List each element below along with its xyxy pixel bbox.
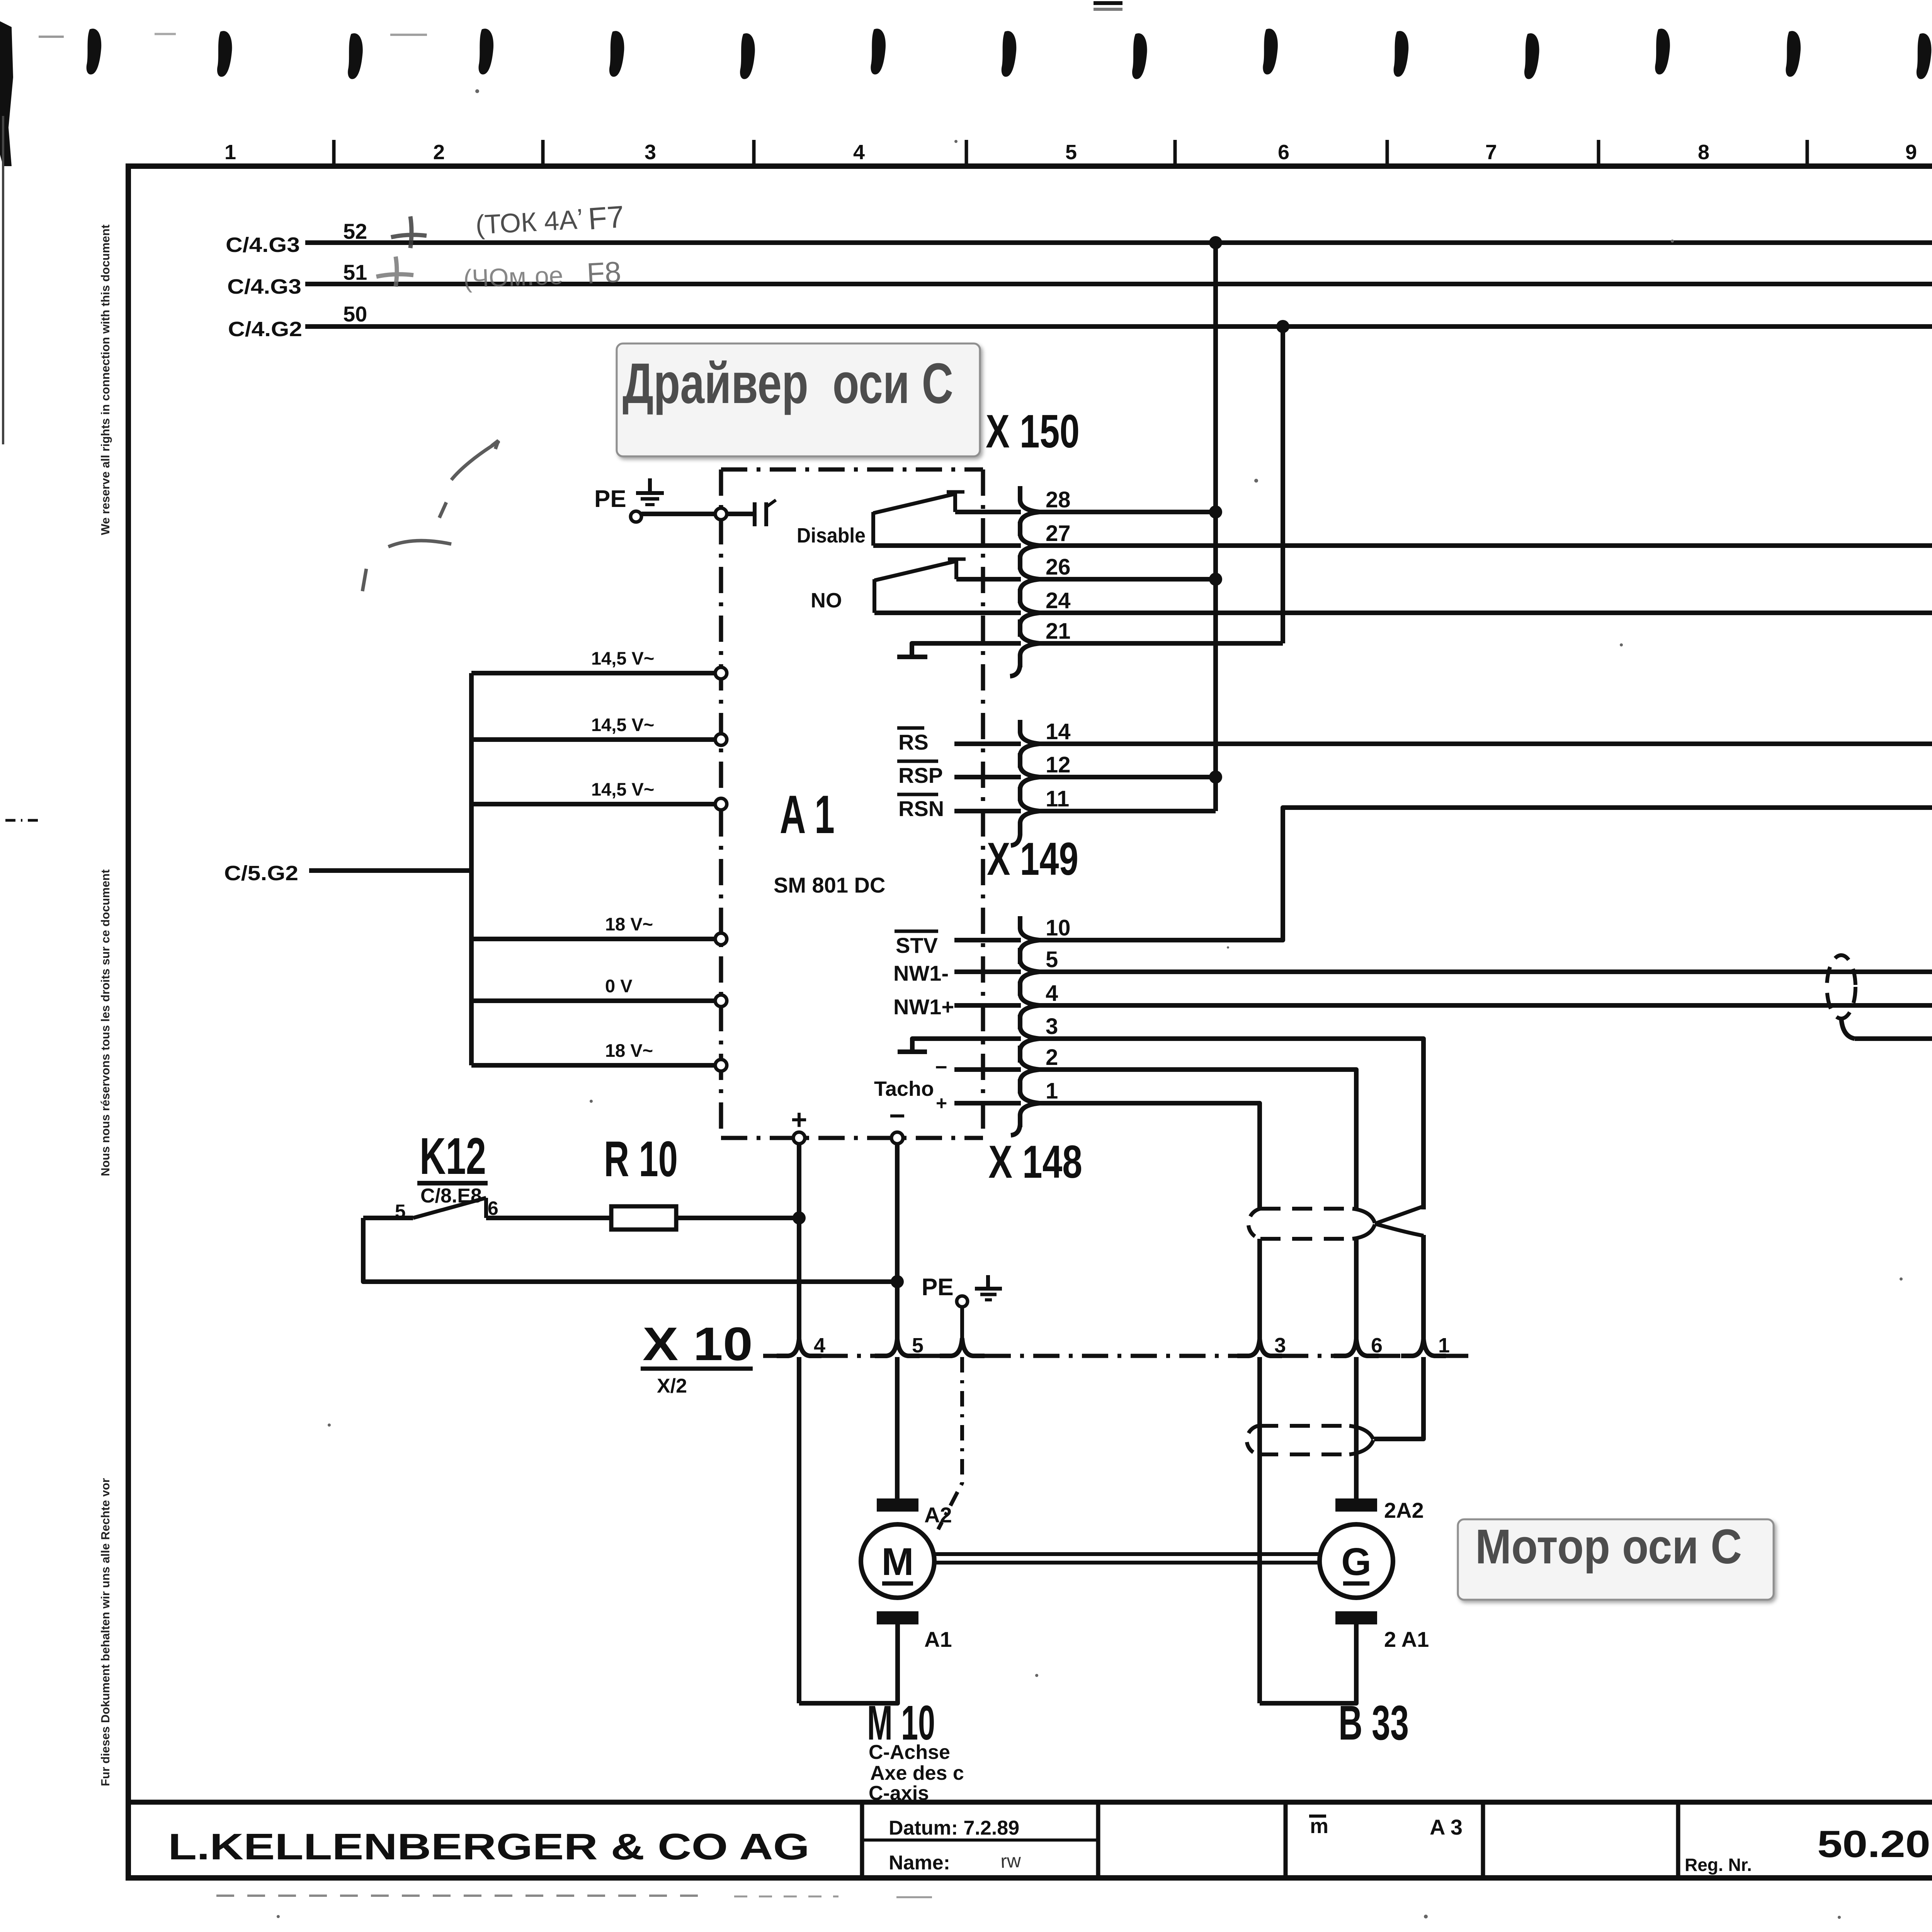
wire RSP to net52 vertical: [1039, 775, 1216, 779]
wire supply 14,5V~: [471, 802, 716, 806]
motor M10 body circle: [861, 1524, 934, 1598]
connector X10 pin 3 hook: [1237, 1339, 1282, 1356]
svg-text:We reserve all rights in conne: We reserve all rights in connection with…: [99, 224, 112, 535]
overlay label box: Драйвер оси С: [617, 344, 980, 456]
svg-text:F7: F7: [587, 199, 625, 236]
wire X150 pin26 to net52 vertical: [1039, 577, 1216, 582]
connector X150 pin 28 number: [1046, 487, 1071, 512]
connector X10 name: [641, 1318, 753, 1370]
svg-text:PE: PE: [594, 486, 626, 512]
pencil annotation row 52: + (TOK 4A) F7: [391, 199, 625, 248]
connector X149 pin 11 number: [1046, 786, 1069, 811]
wire X10 pin1 to lower capsule: [1374, 1357, 1423, 1439]
label Axe des c: [870, 1762, 964, 1784]
svg-text:14,5 V~: 14,5 V~: [591, 714, 654, 735]
svg-text:2: 2: [433, 141, 445, 164]
wire net 51: [305, 282, 1932, 286]
label Disable: [797, 524, 866, 547]
net label C/5.G2: [224, 862, 298, 885]
svg-text:Reg. Nr.: Reg. Nr.: [1685, 1855, 1752, 1875]
title block divider 5: [1676, 1802, 1680, 1878]
wire B33 2A1 to X10 pin3 elbow: [1260, 1624, 1356, 1703]
svg-text:X 150: X 150: [986, 405, 1080, 457]
svg-text:rw: rw: [1000, 1850, 1022, 1872]
dash-dot PE bond to motor frame: [938, 1357, 962, 1529]
svg-text:X/2: X/2: [657, 1375, 687, 1397]
connector X10 pin PE hook: [940, 1339, 985, 1356]
label 0V: [605, 976, 633, 996]
svg-text:NW1+: NW1+: [893, 995, 954, 1019]
connector X10 pin 4 hook: [777, 1339, 821, 1356]
shield capsule upper (dashed): [1248, 1209, 1375, 1239]
svg-text:C/8.E8: C/8.E8: [420, 1185, 482, 1207]
contact NO: pin24 stub wire: [874, 611, 1021, 615]
node junction net52/RSP: [1209, 770, 1222, 784]
module A1 designator: [780, 784, 835, 845]
svg-text:50: 50: [343, 302, 367, 326]
label 14,5V~: [591, 714, 654, 735]
svg-text:A 1: A 1: [780, 784, 835, 845]
stub wire STV: [954, 938, 1021, 942]
connector X150 pin 26 number: [1046, 554, 1071, 580]
svg-text:5: 5: [912, 1334, 923, 1357]
wire RSN to net52 vertical: [1039, 809, 1216, 813]
module A1 type SM 801 DC: [774, 873, 885, 897]
svg-text:2: 2: [1046, 1045, 1058, 1070]
node junction R10/+ wire: [793, 1211, 806, 1225]
contact Disable: pin27 stub wire: [873, 543, 1021, 548]
title block datum/name divider: [862, 1838, 1098, 1842]
svg-text:SM 801 DC: SM 801 DC: [774, 873, 885, 897]
contact K12 blade: [413, 1198, 486, 1218]
node: A1 boundary PE connection: [715, 508, 727, 520]
svg-text:14,5 V~: 14,5 V~: [591, 648, 654, 668]
svg-text:F8: F8: [586, 255, 622, 290]
connector X149 body tail: [1011, 835, 1020, 845]
overlay label box: Мотор оси С: [1458, 1519, 1774, 1600]
node junction on net 50: [1276, 320, 1289, 333]
svg-text:2 A1: 2 A1: [1384, 1627, 1429, 1651]
resistor R10 body: [611, 1206, 676, 1230]
svg-text:9: 9: [1905, 141, 1917, 164]
contact Disable: pin28 stub wire: [955, 510, 1021, 514]
svg-text:X 148: X 148: [988, 1136, 1082, 1188]
svg-text:X 149: X 149: [987, 833, 1078, 885]
shield oval drain hook: [1841, 1018, 1855, 1039]
generator B33 top terminal pad: [1335, 1498, 1377, 1512]
feed-through capacitor symbol: [755, 500, 776, 526]
wire net 50: [305, 324, 1932, 329]
stub wire RS: [954, 742, 1021, 746]
contact K12 terminal 6 tick: [484, 1198, 488, 1218]
motor M10 bottom terminal pad: [877, 1611, 918, 1624]
connector X150 pin 21 hook: [1020, 619, 1039, 667]
contact K12 terminal 6 label: [488, 1197, 498, 1219]
wire vertical from net 50: [1281, 327, 1285, 643]
connector X150 pin 24 number: [1046, 588, 1071, 613]
title: Reg. Nr. label: [1685, 1855, 1752, 1875]
terminal circle on A1 boundary (14,5V~): [715, 667, 727, 679]
svg-text:5: 5: [1046, 947, 1058, 972]
svg-text:Name:: Name:: [889, 1852, 950, 1874]
wire X10 pin4 down: [797, 1357, 801, 1703]
node junction lower return/− vertical: [891, 1275, 904, 1288]
title block top line: [128, 1800, 1932, 1805]
net label C/4.G2 (row 50): [228, 318, 302, 341]
title: Reg number 50.209.10: [1817, 1823, 1932, 1865]
wire tacho- through capsule to X10 pin6: [1354, 1239, 1359, 1339]
stub wire tacho −: [954, 1067, 1021, 1072]
svg-text:M: M: [881, 1540, 913, 1583]
wire X150 pin28 to net52 vertical: [1039, 510, 1216, 514]
wire X148 pin3 shield run: [1039, 1039, 1423, 1209]
net label C/4.G3 (row 51): [227, 275, 301, 298]
connector X10 pin 6 number: [1371, 1334, 1383, 1357]
label RSP (overline): [897, 761, 943, 787]
svg-text:50.209.10: 50.209.10: [1817, 1823, 1932, 1865]
label 2 A1: [1384, 1627, 1429, 1651]
svg-text:B 33: B 33: [1338, 1696, 1409, 1750]
svg-text:RSN: RSN: [898, 796, 944, 821]
svg-text:6: 6: [1371, 1334, 1383, 1357]
svg-text:3: 3: [645, 141, 656, 164]
title block divider 3: [1284, 1802, 1288, 1878]
connector X10 pin 5 number: [912, 1334, 923, 1357]
contact NO: fixed terminal: [948, 559, 966, 579]
pencil annotation: arrow scribble: [362, 440, 499, 591]
svg-text:1: 1: [1438, 1334, 1450, 1357]
stub wire NW1+: [954, 1003, 1021, 1008]
svg-text:0 V: 0 V: [605, 976, 633, 996]
svg-text:14,5 V~: 14,5 V~: [591, 779, 654, 799]
connector X10 pin 3 number: [1274, 1334, 1286, 1357]
shield capsule lower (dashed): [1247, 1426, 1373, 1454]
title: format A3: [1430, 1815, 1463, 1839]
svg-text:Nous nous réservons tous les d: Nous nous réservons tous les droits sur …: [99, 869, 112, 1176]
svg-text:Datum: 7.2.89: Datum: 7.2.89: [889, 1817, 1019, 1839]
wire shield run to X10 pin1: [1421, 1235, 1426, 1339]
contact NO: pin26 stub wire: [956, 577, 1021, 582]
svg-text:27: 27: [1046, 521, 1071, 546]
ground stub at X148 pin 3: [898, 1039, 1021, 1052]
wire X114-b6 riser: [1039, 808, 1932, 940]
wire M10 A1 to X10 pin4 elbow: [799, 1624, 898, 1703]
svg-text:RSP: RSP: [898, 763, 943, 787]
shaft coupling M10-B33: [935, 1554, 1319, 1563]
title: format symbol m: [1309, 1815, 1328, 1838]
svg-text:C/4.G2: C/4.G2: [228, 318, 302, 341]
svg-text:Fur dieses Dokument behalten w: Fur dieses Dokument behalten wir uns all…: [99, 1478, 112, 1786]
svg-text:(ТОК 4Аʼ: (ТОК 4Аʼ: [475, 204, 584, 240]
connector X150 pin 21 number: [1046, 619, 1071, 644]
connector X149 pin 14 hook: [1020, 720, 1039, 768]
wire X10 pin3 down: [1257, 1357, 1262, 1703]
connector X10 pin 5 hook: [875, 1339, 920, 1356]
motor M10 designator: [867, 1696, 935, 1750]
connector X148 pin 10 number: [1046, 915, 1071, 940]
label RSN (overline): [897, 794, 944, 821]
svg-text:(ЧОм․ое: (ЧОм․ое: [463, 261, 564, 293]
label STV (overline): [895, 931, 938, 957]
svg-text:5: 5: [1065, 141, 1077, 164]
label tacho − sign: [935, 1056, 947, 1079]
stub wire NW1-: [954, 969, 1021, 974]
terminal circle + output: [793, 1132, 805, 1144]
label 14,5V~: [591, 648, 654, 668]
svg-text:10: 10: [1046, 915, 1071, 940]
svg-text:3: 3: [1046, 1014, 1058, 1039]
svg-text:L.KELLENBERGER & CO AG: L.KELLENBERGER & CO AG: [168, 1826, 810, 1867]
connector X150 body tail: [1010, 486, 1020, 676]
label 18V~: [605, 1040, 653, 1061]
generator B33 bottom terminal pad: [1335, 1611, 1377, 1624]
wire K12 lower return: [363, 1218, 897, 1282]
contact Disable: fixed terminal: [947, 492, 964, 512]
connector X149 name: [987, 833, 1078, 885]
earth symbol at A1 PE: [636, 478, 664, 505]
wire NW1- to X96 pin5: [1039, 969, 1932, 974]
contact NO: blade: [874, 561, 955, 580]
node junction on net 52: [1209, 236, 1222, 249]
scan artifact: dashed line below title block: [216, 1896, 932, 1897]
connector X149 pin 14 number: [1046, 719, 1071, 744]
connector X150 pin 28 hook: [1020, 488, 1039, 536]
wire RS to X114 pin1: [1039, 742, 1932, 746]
net 52 number left: [343, 219, 367, 243]
motor M10 letter M: [881, 1540, 913, 1583]
connector X150 name: [986, 405, 1080, 457]
label NW1+: [893, 995, 954, 1019]
scan artifact: dash-dot left margin: [5, 819, 39, 822]
connector X149 pin 11 hook: [1020, 787, 1039, 835]
svg-text:26: 26: [1046, 554, 1071, 580]
svg-text:Мотор оси С: Мотор оси С: [1475, 1519, 1742, 1574]
node junction net52/pin26: [1209, 573, 1222, 586]
connector X148 pin 5 hook: [1020, 948, 1039, 996]
svg-text:NO: NO: [811, 589, 842, 612]
svg-text:52: 52: [343, 219, 367, 243]
connector X148 pin 2 hook: [1020, 1046, 1039, 1094]
connector X150 pin 27 number: [1046, 521, 1071, 546]
connector X148 pin 1 number: [1046, 1078, 1058, 1104]
title: Name value rw (handwritten): [1000, 1850, 1022, 1872]
label 18V~: [605, 914, 653, 934]
svg-text:3: 3: [1274, 1334, 1286, 1357]
title block divider 1: [860, 1802, 864, 1878]
svg-text:−: −: [935, 1056, 947, 1079]
wire PE into module: [727, 512, 753, 516]
terminal circle on A1 boundary (14,5V~): [715, 734, 727, 745]
svg-text:PE: PE: [922, 1274, 954, 1301]
connector X148 pin 3 hook: [1020, 1015, 1039, 1063]
label 2A2: [1384, 1498, 1424, 1522]
svg-text:4: 4: [1046, 981, 1058, 1006]
scan artifact: black corner blob top-left: [0, 21, 13, 166]
resistor R10 designator: [604, 1131, 678, 1187]
pencil annotation row 51: + (remark) F8: [376, 255, 622, 293]
svg-text:28: 28: [1046, 487, 1071, 512]
connector X10 reference X/2: [657, 1375, 687, 1397]
wire vertical from net 52: [1213, 243, 1218, 811]
svg-text:4: 4: [814, 1334, 825, 1357]
terminal circle − output: [891, 1132, 903, 1144]
wire X148 pin1 tacho+ down: [1039, 1103, 1260, 1209]
shield oval at X96 (dashed): [1827, 955, 1855, 1019]
label A2: [924, 1503, 952, 1527]
earth symbol at X10 PE: [975, 1275, 1002, 1300]
svg-text:G: G: [1341, 1540, 1371, 1583]
wire X10 pin5 to M10 A2: [895, 1357, 900, 1498]
terminal circle PE X10: [957, 1296, 968, 1307]
title: company name: [168, 1826, 810, 1867]
connector X150 pin 26 hook: [1020, 555, 1039, 603]
column numbers 1-12 top margin: [224, 141, 1932, 164]
connector X10 pin 6 hook: [1334, 1339, 1379, 1356]
svg-text:Драйвер оси С: Драйвер оси С: [622, 352, 953, 415]
connector X148 name: [988, 1136, 1082, 1188]
svg-text:C/4.G3: C/4.G3: [226, 233, 300, 257]
wire X150 pin24 to X17 pin8: [1039, 611, 1932, 615]
wire C/5.G2 to bracket: [309, 868, 471, 873]
wire NW1+ to X96 pin6: [1039, 1003, 1932, 1008]
label C-axis: [869, 1782, 929, 1804]
module A1 boundary (dash-dot box): [721, 469, 983, 1138]
ground stub at X150 pin 21: [897, 643, 1021, 657]
connector X10 pin 1 hook: [1401, 1339, 1446, 1356]
label NW1-: [893, 961, 949, 985]
contact Disable: blade: [873, 494, 954, 513]
contact NO: moving terminal riser: [872, 579, 876, 613]
connector X149 pin 12 number: [1046, 752, 1071, 777]
title: Datum label: [889, 1817, 1019, 1839]
connector X148 pin 4 hook: [1020, 981, 1039, 1029]
svg-text:11: 11: [1046, 786, 1069, 811]
terminal circle on A1 boundary (14,5V~): [715, 798, 727, 810]
connector X148 pin 5 number: [1046, 947, 1058, 972]
svg-text:K12: K12: [420, 1128, 486, 1185]
svg-text:18 V~: 18 V~: [605, 914, 653, 934]
title block divider 4: [1481, 1802, 1485, 1878]
connector X149 pin 12 hook: [1020, 753, 1039, 801]
wire supply 14,5V~: [471, 671, 716, 675]
label + terminal: [791, 1104, 807, 1135]
svg-text:C/5.G2: C/5.G2: [224, 862, 298, 885]
connector X148 pin 10 hook: [1020, 916, 1039, 964]
svg-text:C-Achse: C-Achse: [869, 1741, 950, 1764]
wire to K12 terminal 5: [363, 1216, 413, 1220]
wire supply 14,5V~: [471, 737, 716, 742]
connector X10 dash-dot line: [763, 1354, 1468, 1358]
wire supply 18V~: [471, 937, 716, 941]
net 51 number left: [343, 260, 367, 284]
column tick marks on top frame: [334, 140, 1932, 166]
scan artifact: sprocket hole marks along top edge: [39, 3, 1932, 79]
svg-text:STV: STV: [896, 933, 938, 957]
relay contact K12 reference C/8.E8: [420, 1185, 482, 1207]
svg-text:6: 6: [1278, 141, 1289, 164]
label 14,5V~: [591, 779, 654, 799]
scan artifact: left margin vertical line: [2, 116, 4, 444]
wire supply 18V~: [471, 1063, 716, 1068]
connector X148 pin 1 hook: [1020, 1079, 1039, 1127]
connector X148 pin 4 number: [1046, 981, 1058, 1006]
svg-text:Axe des c: Axe des c: [870, 1762, 964, 1784]
svg-text:2A2: 2A2: [1384, 1498, 1424, 1522]
label tacho + sign: [936, 1092, 947, 1114]
svg-text:14: 14: [1046, 719, 1071, 744]
shield tie to pin3 run: [1375, 1206, 1423, 1236]
wire PE circle to X10 hook: [960, 1307, 964, 1340]
stub wire RSP: [954, 775, 1021, 779]
terminal circle on A1 boundary (0V): [715, 995, 727, 1007]
wire K12 to R10: [486, 1216, 611, 1220]
rotated legal notices left margin: [99, 224, 112, 1786]
contact Disable: moving terminal riser: [871, 512, 875, 546]
label PE (A1): [594, 486, 626, 512]
svg-text:A2: A2: [924, 1503, 952, 1527]
svg-text:12: 12: [1046, 752, 1071, 777]
wire X150 pin21 to net50 vertical: [1039, 641, 1283, 646]
wire R10 to + vertical: [676, 1216, 799, 1220]
svg-text:Disable: Disable: [797, 524, 866, 547]
terminal circle PE: [631, 511, 641, 522]
connector X150 pin 27 hook: [1020, 522, 1039, 570]
connector X10 pin 4 number: [814, 1334, 825, 1357]
wire − terminal down to X10 pin5: [895, 1144, 900, 1339]
generator B33 body circle: [1320, 1524, 1393, 1598]
svg-text:C/4.G3: C/4.G3: [227, 275, 301, 298]
svg-text:24: 24: [1046, 588, 1071, 613]
wire X10 pin6 to B33 2A2: [1354, 1357, 1359, 1498]
label NO: [811, 589, 842, 612]
wire PE to A1 boundary: [641, 512, 716, 516]
supply bracket vertical bus: [469, 673, 474, 1065]
wire + terminal down to X10 pin4: [797, 1144, 801, 1339]
svg-text:Tacho: Tacho: [874, 1077, 934, 1100]
svg-text:m: m: [1310, 1815, 1328, 1838]
label RS (overline): [897, 728, 929, 754]
node junction net52/pin28: [1209, 505, 1222, 519]
wire net 52: [305, 240, 1932, 245]
wire tacho+ to X10 pin3: [1257, 1239, 1262, 1339]
svg-text:+: +: [936, 1092, 947, 1114]
stub wire RSN: [954, 809, 1021, 813]
stub wire tacho +: [954, 1101, 1021, 1105]
connector X10 pin 1 number: [1438, 1334, 1450, 1357]
wire shield drain to X96 pin7: [1855, 1036, 1932, 1041]
svg-text:4: 4: [853, 141, 865, 164]
svg-text:8: 8: [1698, 141, 1709, 164]
label C-Achse: [869, 1741, 950, 1764]
terminal circle on A1 boundary (18V~): [715, 1060, 727, 1071]
wire supply 0V: [471, 998, 716, 1003]
net label C/4.G3 (row 52): [226, 233, 300, 257]
connector X148 pin 3 number: [1046, 1014, 1058, 1039]
connector X148 body tail: [1011, 1124, 1020, 1135]
connector X148 pin 2 number: [1046, 1045, 1058, 1070]
contact K12 terminal 5 label: [395, 1201, 406, 1222]
svg-text:A 3: A 3: [1430, 1815, 1463, 1839]
svg-text:51: 51: [343, 260, 367, 284]
label − terminal: [889, 1100, 905, 1131]
svg-text:RS: RS: [898, 730, 929, 754]
title block divider 2: [1096, 1802, 1100, 1878]
svg-text:X 10: X 10: [643, 1318, 753, 1370]
title: Name label: [889, 1852, 950, 1874]
label A1: [924, 1627, 952, 1651]
label PE (X10): [922, 1274, 954, 1301]
connector X150 pin 24 hook: [1020, 589, 1039, 637]
